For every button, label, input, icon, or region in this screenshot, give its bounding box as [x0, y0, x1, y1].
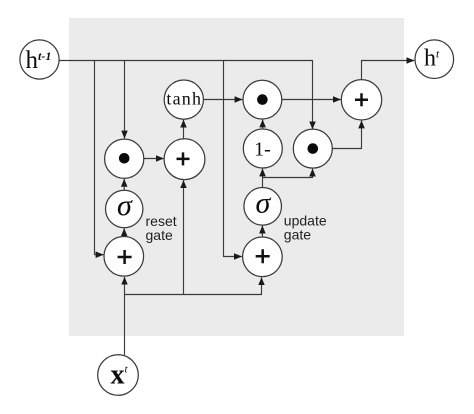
- op lower-left plus: [104, 236, 144, 276]
- wire right dot to output plus bottom: [332, 121, 361, 149]
- svg-text:tanh: tanh: [166, 88, 202, 108]
- wire branch h(t-1) to lower-left plus: [95, 61, 104, 255]
- svg-text:σ: σ: [256, 187, 272, 220]
- wire main h(t-1) line down into right dot: [59, 61, 313, 130]
- wire lower-left plus up to reset sigma: [123, 228, 125, 236]
- wire output plus to h(t): [362, 61, 415, 80]
- node h(t-1): [20, 40, 59, 79]
- wire 1-minus up to top dot: [262, 120, 264, 129]
- op reset elementwise-product dot: [105, 139, 144, 178]
- op top dot (candidate product): [243, 80, 282, 119]
- wire x(t) branch up to pre-tanh plus: [183, 180, 185, 294]
- svg-text:σ: σ: [117, 189, 133, 222]
- svg-text:gate: gate: [284, 226, 311, 242]
- wire x(t) horizontal branch up into update plus: [125, 277, 262, 294]
- op update plus: [243, 237, 283, 277]
- wire top dot to output plus: [282, 99, 341, 101]
- wire branch h(t-1) to reset dot: [124, 61, 126, 139]
- node h(t): [415, 40, 454, 79]
- op update sigma: [244, 187, 282, 226]
- op pre-tanh plus: [164, 139, 205, 180]
- svg-text:gate: gate: [146, 227, 173, 243]
- op 1-minus: [243, 129, 282, 168]
- node x(t) input: [98, 355, 139, 396]
- wire branch h(t-1) to update plus: [224, 61, 242, 257]
- wire tanh to top dot: [203, 99, 242, 101]
- op right dot (memory product): [293, 129, 332, 168]
- wire reset dot to pre-tanh plus: [144, 158, 164, 160]
- svg-text:1-: 1-: [254, 138, 271, 160]
- wire x(t) up into lower-left plus: [124, 277, 126, 355]
- op tanh: [164, 80, 203, 119]
- op output plus: [341, 80, 381, 120]
- wire update plus up to update sigma: [261, 226, 263, 237]
- wire pre-tanh plus up to tanh: [183, 120, 185, 139]
- wire reset sigma up to reset dot: [123, 179, 125, 190]
- wire update sigma branch right up into right dot: [263, 169, 313, 178]
- op reset sigma: [106, 189, 143, 228]
- GRU cell body (gray box): [69, 18, 404, 336]
- wire update sigma up to 1-minus: [262, 169, 264, 188]
